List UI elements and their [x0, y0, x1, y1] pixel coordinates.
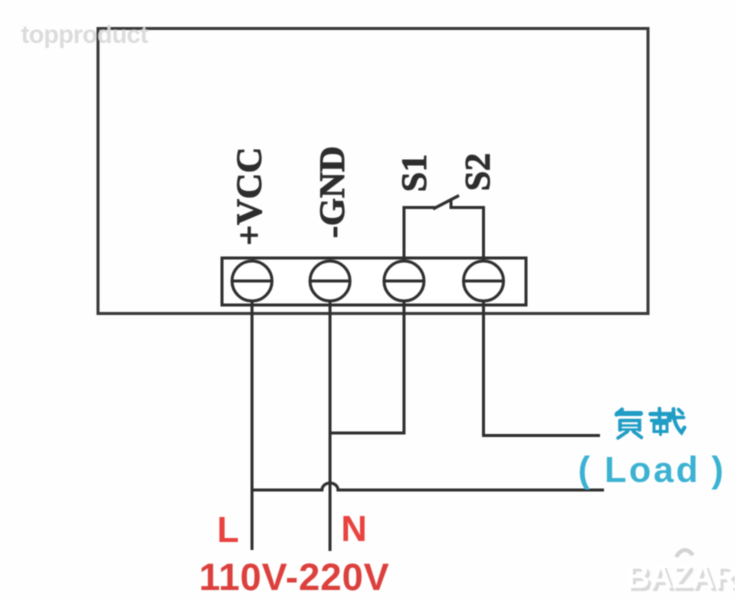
controller outline box [98, 29, 648, 314]
svg-text:110V-220V: 110V-220V [199, 557, 390, 599]
wire from S2 terminal up to switch contact [451, 199, 484, 262]
wire S1 down joining N wire [331, 300, 404, 433]
wire N : -GND terminal down to mains N [329, 300, 332, 551]
svg-text:BAZAR: BAZAR [626, 558, 735, 595]
负 [617, 410, 623, 415]
terminal screw 2 (-GND) [310, 261, 350, 301]
svg-text:+VCC: +VCC [229, 147, 269, 246]
svg-text:L: L [217, 509, 239, 550]
wire from S1 terminal up to switch [404, 208, 436, 263]
terminal screw 3 (S1) [384, 261, 424, 301]
载 [651, 412, 672, 416]
load return wire with hop over N [252, 483, 604, 490]
terminal screw 4 (S2) [464, 261, 504, 301]
svg-text:-GND: -GND [312, 146, 352, 238]
svg-text:topproduct: topproduct [21, 21, 149, 49]
terminal block [222, 258, 526, 305]
label 负载 (load, Chinese) drawn as strokes [617, 409, 685, 439]
switch blade S1-S2 [433, 196, 459, 210]
svg-text:S2: S2 [458, 153, 498, 191]
wire S2 down to load [484, 300, 601, 436]
wire L : +VCC terminal down to mains L [251, 300, 254, 550]
terminal screw 1 (+VCC) [232, 261, 272, 301]
svg-text:N: N [341, 508, 367, 549]
svg-text:S1: S1 [394, 154, 434, 192]
watermark BAZAR logo [626, 550, 735, 598]
